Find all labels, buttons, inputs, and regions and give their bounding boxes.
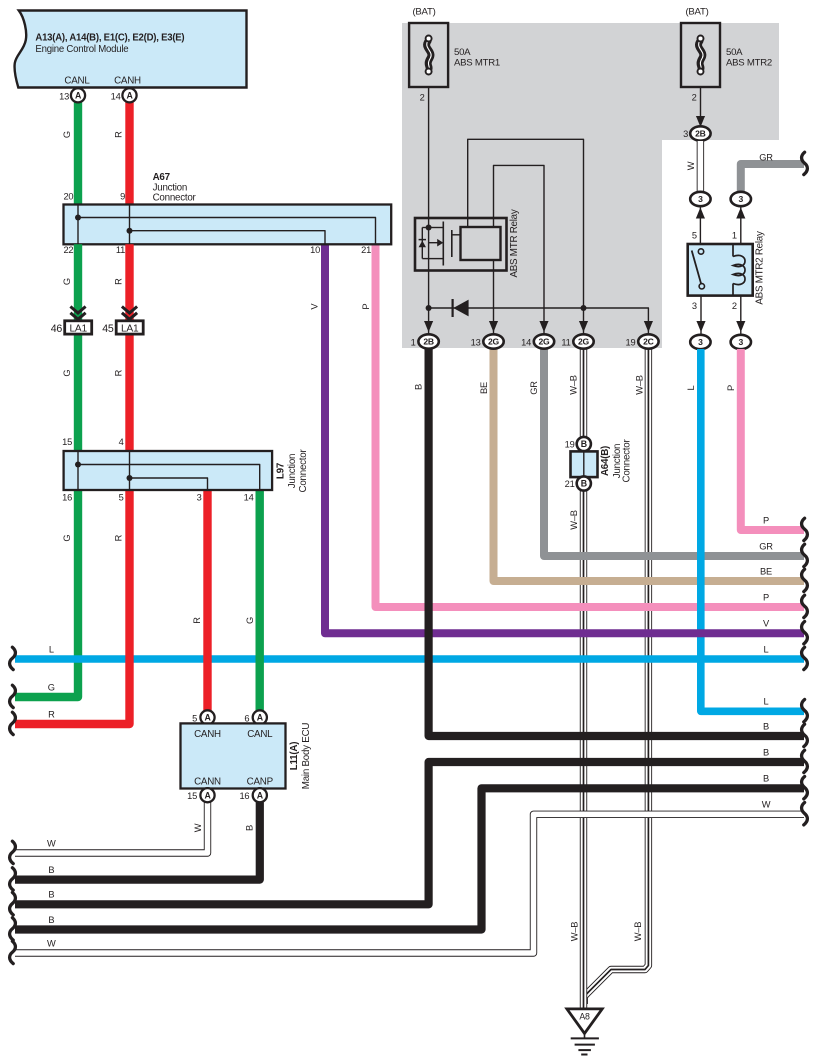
svg-text:G: G: [62, 278, 72, 285]
svg-text:ABS MTR2 Relay: ABS MTR2 Relay: [754, 231, 765, 305]
svg-text:B: B: [48, 865, 54, 875]
svg-text:W–B: W–B: [633, 922, 643, 941]
svg-text:2: 2: [732, 301, 737, 311]
svg-text:ABS MTR2: ABS MTR2: [726, 58, 772, 69]
svg-text:W–B: W–B: [568, 375, 578, 394]
svg-text:3: 3: [197, 493, 202, 503]
svg-text:LA1: LA1: [70, 324, 88, 335]
svg-text:4: 4: [119, 437, 124, 447]
svg-text:P: P: [361, 304, 371, 310]
svg-text:13: 13: [471, 337, 481, 347]
svg-text:ABS MTR Relay: ABS MTR Relay: [509, 209, 520, 277]
svg-text:B: B: [763, 774, 769, 784]
svg-text:W: W: [47, 838, 56, 848]
svg-text:5: 5: [119, 493, 124, 503]
svg-text:L: L: [764, 644, 769, 654]
svg-text:Connector: Connector: [153, 193, 197, 204]
svg-text:R: R: [114, 131, 124, 138]
svg-text:A: A: [204, 713, 211, 723]
svg-text:B: B: [581, 479, 587, 489]
svg-text:2C: 2C: [643, 337, 654, 347]
svg-text:CANN: CANN: [194, 777, 221, 788]
svg-text:BE: BE: [760, 566, 772, 576]
svg-text:1: 1: [732, 231, 737, 241]
svg-text:5: 5: [192, 713, 197, 723]
svg-text:P: P: [763, 592, 769, 602]
svg-text:6: 6: [244, 713, 249, 723]
svg-text:B: B: [763, 747, 769, 757]
svg-text:L11(A): L11(A): [289, 742, 300, 770]
svg-text:B: B: [48, 915, 54, 925]
svg-text:G: G: [48, 682, 55, 692]
svg-text:13: 13: [59, 91, 69, 101]
svg-text:BE: BE: [479, 382, 489, 394]
svg-text:2G: 2G: [488, 337, 500, 347]
svg-text:3: 3: [692, 301, 697, 311]
svg-text:(BAT): (BAT): [412, 7, 435, 18]
svg-text:G: G: [62, 535, 72, 542]
svg-text:19: 19: [626, 337, 636, 347]
svg-text:W: W: [686, 161, 696, 170]
svg-text:CANH: CANH: [114, 76, 141, 87]
svg-text:A: A: [126, 91, 133, 101]
svg-text:2: 2: [420, 93, 425, 103]
svg-text:A: A: [257, 790, 264, 800]
svg-text:16: 16: [239, 791, 249, 801]
svg-text:P: P: [726, 385, 736, 391]
svg-text:W–B: W–B: [634, 375, 644, 394]
svg-text:LA1: LA1: [121, 324, 139, 335]
svg-text:Connector: Connector: [298, 449, 309, 493]
svg-text:L: L: [764, 697, 769, 707]
svg-text:B: B: [244, 825, 254, 831]
svg-text:15: 15: [62, 437, 72, 447]
svg-text:V: V: [763, 619, 770, 629]
svg-text:Connector: Connector: [621, 439, 632, 483]
svg-text:CANL: CANL: [64, 76, 90, 87]
svg-text:P: P: [763, 515, 769, 525]
svg-text:L: L: [686, 385, 696, 390]
svg-text:B: B: [48, 890, 54, 900]
svg-text:L: L: [49, 644, 54, 654]
svg-text:19: 19: [565, 440, 575, 450]
svg-text:3: 3: [683, 129, 688, 139]
svg-text:14: 14: [111, 91, 121, 101]
svg-text:A64(B): A64(B): [600, 446, 611, 476]
svg-text:22: 22: [63, 245, 73, 255]
svg-text:R: R: [192, 617, 202, 624]
svg-text:G: G: [62, 370, 72, 377]
svg-text:G: G: [62, 131, 72, 138]
svg-text:L97: L97: [276, 462, 287, 479]
svg-text:14: 14: [521, 337, 531, 347]
svg-text:Engine Control Module: Engine Control Module: [35, 44, 128, 55]
svg-text:3: 3: [698, 194, 703, 204]
svg-text:1: 1: [411, 337, 416, 347]
svg-text:50A: 50A: [454, 47, 471, 58]
svg-text:A: A: [257, 713, 264, 723]
svg-text:3: 3: [739, 194, 744, 204]
svg-text:R: R: [114, 369, 124, 376]
svg-text:21: 21: [565, 479, 575, 489]
svg-text:G: G: [245, 617, 255, 624]
svg-text:Junction: Junction: [287, 454, 298, 489]
svg-text:CANH: CANH: [194, 729, 221, 740]
svg-text:R: R: [48, 709, 55, 719]
svg-text:5: 5: [692, 231, 697, 241]
svg-text:3: 3: [739, 337, 744, 347]
svg-text:20: 20: [63, 191, 73, 201]
svg-text:V: V: [310, 303, 320, 310]
svg-text:A: A: [75, 91, 82, 101]
svg-text:Main Body ECU: Main Body ECU: [301, 723, 312, 790]
svg-text:21: 21: [361, 245, 371, 255]
svg-text:W: W: [762, 800, 771, 810]
svg-text:GR: GR: [759, 541, 773, 551]
svg-text:3: 3: [698, 337, 703, 347]
svg-text:2B: 2B: [423, 337, 434, 347]
svg-text:W–B: W–B: [569, 922, 579, 941]
svg-text:ABS MTR1: ABS MTR1: [454, 58, 500, 69]
svg-text:9: 9: [120, 191, 125, 201]
svg-text:CANP: CANP: [247, 777, 274, 788]
svg-text:45: 45: [102, 323, 114, 335]
svg-text:A: A: [204, 790, 211, 800]
svg-text:2G: 2G: [539, 337, 551, 347]
svg-text:16: 16: [62, 493, 72, 503]
svg-text:R: R: [114, 278, 124, 285]
svg-text:A8: A8: [579, 1012, 590, 1022]
svg-text:W: W: [193, 823, 203, 832]
svg-text:10: 10: [310, 245, 320, 255]
svg-text:15: 15: [187, 791, 197, 801]
svg-text:B: B: [763, 721, 769, 731]
svg-text:2B: 2B: [695, 129, 706, 139]
svg-text:(BAT): (BAT): [685, 7, 708, 18]
svg-text:GR: GR: [529, 381, 539, 395]
svg-text:46: 46: [51, 323, 63, 335]
svg-text:2: 2: [692, 93, 697, 103]
svg-text:11: 11: [561, 337, 570, 347]
svg-text:14: 14: [244, 493, 254, 503]
svg-text:R: R: [114, 534, 124, 541]
svg-text:W: W: [47, 938, 56, 948]
svg-text:W–B: W–B: [569, 510, 579, 529]
svg-text:B: B: [413, 384, 423, 390]
svg-text:CANL: CANL: [247, 729, 273, 740]
svg-text:2G: 2G: [578, 337, 590, 347]
svg-text:50A: 50A: [726, 47, 743, 58]
svg-text:A13(A), A14(B), E1(C), E2(D),: A13(A), A14(B), E1(C), E2(D), E3(E): [35, 33, 184, 44]
svg-text:11: 11: [116, 245, 125, 255]
svg-text:GR: GR: [759, 153, 773, 163]
svg-text:B: B: [581, 439, 587, 449]
